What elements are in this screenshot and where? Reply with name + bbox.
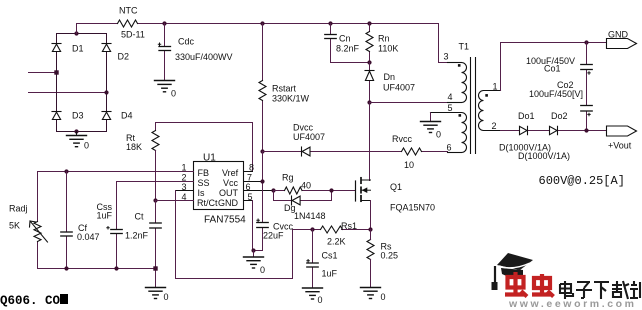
wire T1 pin2 stub: [484, 130, 501, 132]
svg-text:1N4148: 1N4148: [294, 211, 326, 221]
svg-text:www.eeworm.com: www.eeworm.com: [508, 298, 637, 310]
ground Ct: [146, 288, 166, 299]
wire drain node to transformer pin4: [370, 102, 462, 104]
svg-text:D3: D3: [72, 111, 84, 121]
wire secondary top rail: [501, 43, 607, 91]
node AC lower junction: [104, 90, 108, 94]
svg-text:10: 10: [404, 160, 414, 170]
wire Ct column: [155, 201, 157, 288]
wire T1 pin4 stub: [448, 102, 462, 104]
svg-text:Rs1: Rs1: [341, 221, 357, 231]
svg-text:D2: D2: [118, 52, 130, 62]
diode D4: [102, 112, 111, 120]
wire top rail: [77, 24, 448, 63]
svg-text:FQA15N70: FQA15N70: [390, 203, 435, 213]
wire Q1 source column: [370, 201, 372, 230]
svg-text:NTC: NTC: [119, 6, 138, 16]
diode D2: [102, 44, 111, 52]
svg-text:Ct: Ct: [135, 212, 144, 222]
svg-text:18K: 18K: [126, 142, 142, 152]
svg-text:Rstart: Rstart: [272, 84, 297, 94]
capacitor Cvcc: [257, 219, 268, 228]
wire drain column: [369, 103, 371, 181]
svg-text:6: 6: [246, 182, 251, 192]
node Rn top junction: [367, 21, 371, 25]
ground Rs: [361, 288, 381, 299]
svg-text:Dn: Dn: [384, 72, 396, 82]
svg-text:2: 2: [492, 121, 497, 131]
wire Is net: [176, 191, 313, 279]
node Cdc junction: [162, 21, 166, 25]
svg-text:Co1: Co1: [544, 64, 561, 74]
wire Cs1 column: [312, 230, 314, 289]
diode Dvcc: [302, 147, 311, 156]
node bridge top junction: [74, 31, 78, 35]
svg-text:Radj: Radj: [9, 204, 28, 214]
svg-text:0: 0: [381, 292, 386, 302]
svg-text:SS: SS: [198, 178, 210, 188]
ground Cs1: [303, 288, 323, 299]
ground T1 pin5: [421, 113, 441, 133]
wire Cn column: [331, 24, 370, 63]
node AC upper square junction: [54, 70, 58, 74]
svg-text:U1: U1: [203, 153, 216, 164]
svg-text:110K: 110K: [378, 44, 398, 54]
svg-text:5: 5: [448, 103, 453, 113]
wire bottom rail: [38, 268, 156, 270]
svg-text:T1: T1: [459, 42, 470, 52]
svg-text:1uF: 1uF: [322, 269, 338, 279]
transistor Q1 MOSFET: [356, 178, 371, 207]
node Vcc junction: [260, 179, 264, 183]
svg-text:UF4007: UF4007: [383, 83, 415, 93]
svg-text:3: 3: [444, 52, 449, 62]
capacitor Co1: [581, 65, 592, 75]
svg-text:D4: D4: [121, 111, 133, 121]
node Rstart top junction: [260, 21, 264, 25]
diode Dn: [365, 71, 374, 81]
svg-text:Do1: Do1: [518, 111, 535, 121]
T1 core: [471, 58, 476, 154]
node snubber junction: [367, 60, 371, 64]
T1 secondary winding: [479, 91, 484, 131]
wire bridge frame: [57, 34, 107, 132]
svg-text:Cn: Cn: [339, 34, 351, 44]
node Cn junction: [328, 21, 332, 25]
wire SS net: [117, 181, 194, 183]
svg-text:8: 8: [249, 163, 254, 173]
resistor Rs1: [321, 226, 343, 233]
capacitor Cs1: [307, 260, 318, 268]
svg-text:0: 0: [84, 141, 89, 151]
svg-text:5D-11: 5D-11: [121, 30, 145, 40]
wire T1 pin6 stub: [448, 152, 462, 154]
node Co1 top junction: [584, 40, 588, 44]
capacitor Css: [107, 227, 122, 234]
svg-text:2.2K: 2.2K: [327, 237, 346, 247]
label site watermark Q606.COM: [0, 294, 68, 308]
svg-text:1: 1: [493, 82, 498, 92]
wire bridge top to rail: [76, 24, 78, 34]
svg-text:D1: D1: [72, 44, 84, 54]
wire Co column: [586, 43, 588, 131]
svg-text:D(1000V/1A): D(1000V/1A): [518, 151, 570, 161]
wire Cdc column: [164, 24, 166, 81]
node drain junction: [367, 100, 371, 104]
node Css bottom junction: [114, 266, 118, 270]
svg-text:Dvcc: Dvcc: [293, 123, 313, 133]
svg-text:Vref: Vref: [222, 168, 239, 178]
svg-text:Rvcc: Rvcc: [392, 134, 412, 144]
svg-text:FAN7554: FAN7554: [204, 215, 246, 226]
svg-text:UF4007: UF4007: [293, 132, 325, 142]
capacitor Co2: [581, 106, 592, 116]
black characters dianzi xiazai zhan: [560, 281, 640, 299]
wire Radj column: [37, 172, 39, 269]
wire Rstart column: [262, 24, 264, 152]
capacitor Cdc: [158, 43, 170, 51]
svg-text:0.25: 0.25: [381, 251, 399, 261]
wire FB net: [38, 171, 194, 173]
svg-text:330K/1W: 330K/1W: [272, 94, 310, 104]
svg-text:7: 7: [247, 173, 252, 183]
node Rt-Ct junction: [153, 198, 157, 202]
capacitor Cn: [325, 35, 336, 39]
red characters chong chong: [505, 272, 554, 297]
svg-text:0: 0: [260, 265, 265, 275]
svg-text:Cdc: Cdc: [178, 37, 195, 47]
U1 pin stubs right: [244, 172, 274, 201]
svg-text:1uF: 1uF: [97, 211, 113, 221]
svg-text:+Vout: +Vout: [608, 141, 632, 151]
connector +Vout output: [607, 126, 637, 136]
svg-text:4: 4: [448, 92, 453, 102]
svg-text:0: 0: [164, 292, 169, 302]
node Dvcc junction: [260, 149, 264, 153]
wire T1 pin3 stub: [448, 62, 462, 64]
svg-text:Rt/Ct: Rt/Ct: [197, 198, 218, 208]
wire Rt to pin4 node: [155, 151, 157, 201]
wire AC input lower line: [29, 92, 107, 94]
wire T1 pin5 stub: [431, 112, 462, 114]
T1 phase dot secondary: [485, 94, 488, 97]
T1 phase dot primary: [458, 64, 461, 67]
svg-text:0.047: 0.047: [77, 232, 100, 242]
diode Do2: [550, 126, 558, 134]
svg-text:Q1: Q1: [390, 182, 402, 192]
wire secondary output rail: [501, 130, 607, 132]
resistor Rn: [366, 32, 373, 52]
resistor Rt: [152, 131, 159, 151]
wire Vref riser: [156, 123, 253, 172]
T1 primary winding: [462, 63, 467, 103]
svg-text:OUT: OUT: [219, 188, 239, 198]
potentiometer Radj: [30, 221, 48, 242]
ground U1: [244, 251, 264, 269]
node Cs1 junction: [310, 227, 314, 231]
svg-text:FB: FB: [198, 168, 210, 178]
svg-text:100uF/450[V]: 100uF/450[V]: [529, 89, 583, 99]
node Cf top junction: [64, 169, 68, 173]
svg-text:5K: 5K: [9, 221, 20, 231]
svg-text:600V@0.25[A]: 600V@0.25[A]: [539, 174, 625, 188]
ground bridge: [67, 132, 87, 147]
resistor Rvcc: [402, 148, 422, 155]
wire Cf column: [66, 172, 68, 269]
U1 pin stubs left: [176, 172, 194, 201]
capacitor Ct: [150, 223, 161, 228]
wire Dn column: [369, 63, 371, 103]
node Cf bottom junction: [64, 266, 68, 270]
wire Rn column: [369, 24, 371, 63]
svg-text:40: 40: [301, 181, 311, 191]
resistor Rs: [367, 240, 374, 260]
connector GND output: [607, 39, 637, 49]
node GND-Cvcc junction: [251, 248, 255, 252]
svg-text:0: 0: [171, 89, 176, 99]
svg-text:3: 3: [182, 182, 187, 192]
svg-text:GND: GND: [608, 30, 629, 40]
wire pin4 net: [156, 200, 194, 202]
wire GND pin drop: [252, 201, 254, 251]
capacitor Cf: [61, 232, 72, 236]
svg-text:8.2nF: 8.2nF: [336, 44, 360, 54]
T1 aux winding: [462, 113, 467, 153]
wire Vcc column to Cvcc: [254, 152, 263, 251]
logo eeworm watermark: [478, 230, 642, 310]
transformer T1: [431, 58, 501, 154]
diode D3: [52, 112, 61, 120]
wire Vcc rail to transformer pin6: [263, 152, 462, 153]
node source junction: [368, 227, 372, 231]
T1 phase dot aux: [459, 114, 462, 117]
diode D1: [52, 44, 61, 52]
wire Css column: [116, 182, 118, 269]
wire gate net: [274, 190, 356, 192]
svg-text:Do2: Do2: [551, 111, 568, 121]
wire T1 pin1 stub: [484, 90, 501, 92]
svg-text:Cs1: Cs1: [322, 251, 338, 261]
svg-text:GND: GND: [218, 198, 239, 208]
svg-text:330uF/400WV: 330uF/400WV: [175, 52, 233, 62]
svg-text:Vcc: Vcc: [223, 178, 239, 188]
svg-text:1.2nF: 1.2nF: [125, 231, 149, 241]
diode Dg: [292, 196, 301, 205]
diode Do1: [520, 126, 528, 134]
svg-text:5: 5: [248, 192, 253, 202]
wire Rs column: [370, 230, 372, 288]
wire Rs1 net: [313, 229, 371, 231]
resistor NTC: [118, 20, 138, 27]
svg-text:0: 0: [436, 130, 441, 140]
resistor Rg: [285, 187, 303, 194]
node OUT junction: [271, 188, 275, 192]
node Vout junction: [584, 128, 588, 132]
svg-text:Is: Is: [198, 188, 206, 198]
node gate junction: [329, 188, 333, 192]
svg-text:Rn: Rn: [378, 34, 390, 44]
resistor Rstart: [259, 81, 266, 101]
graduation cap icon: [492, 253, 534, 290]
svg-text:6: 6: [447, 143, 452, 153]
svg-text:22uF: 22uF: [263, 231, 284, 241]
ground Cdc: [155, 81, 175, 92]
wire AC input upper line: [29, 72, 55, 74]
wire Dg bypass: [274, 191, 332, 201]
node bridge bottom junction: [74, 129, 78, 133]
op-amp U1 FAN7554 box: [194, 162, 244, 210]
svg-text:0: 0: [318, 295, 323, 305]
node Ct bottom square junction: [153, 266, 157, 270]
svg-text:Rg: Rg: [282, 173, 294, 183]
